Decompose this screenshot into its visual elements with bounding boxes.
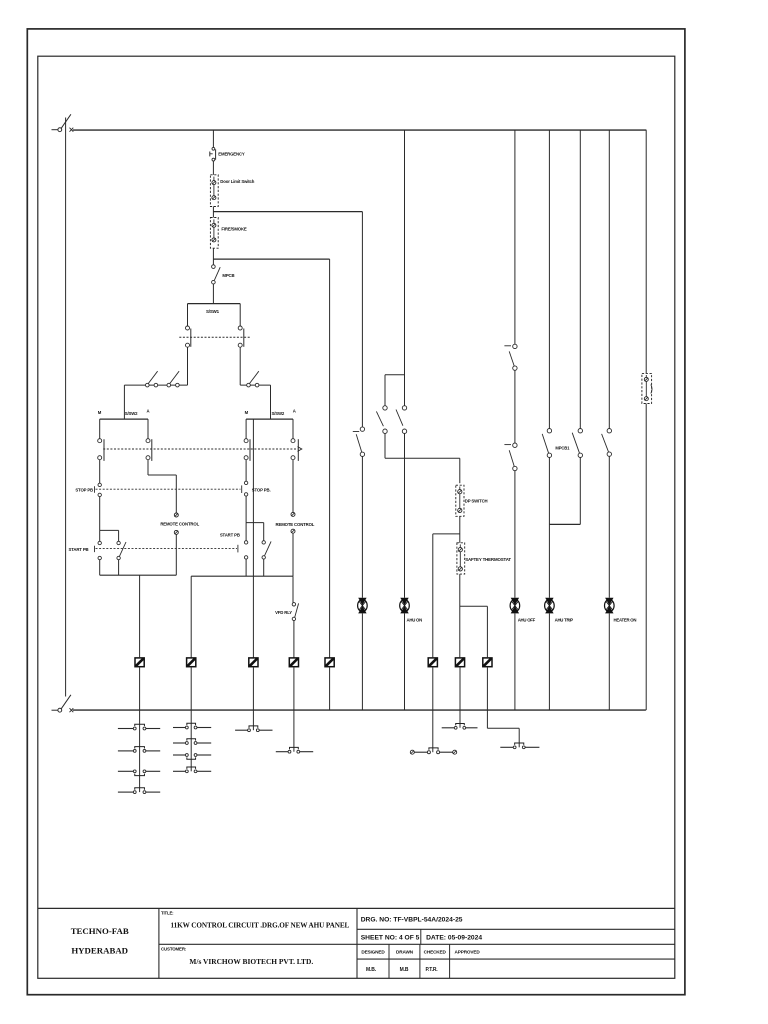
lamp HEATER ON <box>605 598 615 614</box>
wire <box>361 457 363 598</box>
aux contact A3 <box>118 770 160 776</box>
svg-text:AHU ON: AHU ON <box>407 617 423 622</box>
svg-text:FIRE/SMOKE: FIRE/SMOKE <box>221 227 247 232</box>
wire drop to coil K3 <box>252 576 254 658</box>
bottom neutral bus N <box>73 709 646 711</box>
heater contact 610 <box>602 429 612 457</box>
aux contact F1 <box>442 724 478 730</box>
selector switch S/SW1 <box>186 304 244 348</box>
svg-text:TITLE:: TITLE: <box>161 910 174 915</box>
svg-text:APPROVED: APPROVED <box>455 949 481 954</box>
aux contact A1 <box>118 724 160 730</box>
svg-text:CUSTOMER:: CUSTOMER: <box>161 947 187 952</box>
NC contact 515 lower <box>504 443 517 471</box>
svg-text:M/s VIRCHOW BIOTECH PVT. LTD.: M/s VIRCHOW BIOTECH PVT. LTD. <box>189 957 313 966</box>
svg-text:STOP PB.: STOP PB. <box>252 487 271 492</box>
wire M leg down right <box>245 460 247 481</box>
wire column 646 from bus <box>645 130 647 373</box>
wire column 610 from bus <box>608 130 610 428</box>
aux contact A2 <box>118 747 160 753</box>
wire drop to left S/SW2 <box>123 385 125 419</box>
bracket start contacts left <box>100 529 119 531</box>
bracket to DP switch column <box>385 458 460 483</box>
svg-text:M.B: M.B <box>400 967 409 973</box>
inner border frame <box>38 56 675 978</box>
aux contact B4 <box>173 767 211 773</box>
wires contacts to rail left <box>99 560 101 576</box>
contact group D feed wire <box>293 710 295 752</box>
wire <box>212 161 214 175</box>
coil K4 <box>289 658 298 667</box>
wire <box>293 621 295 658</box>
wire drop to coil K2 <box>190 576 192 658</box>
MPCB switch contact <box>212 265 221 284</box>
coil K1 <box>135 658 144 667</box>
selector switch S/SW2 right <box>244 419 298 461</box>
disconnect switch SW-top <box>52 114 71 131</box>
coil K3 <box>249 658 258 667</box>
lamp AHU OFF <box>510 598 520 614</box>
left coil feed rail <box>100 574 177 576</box>
wire left branch horizontal <box>124 384 187 386</box>
svg-text:DP SWITCH: DP SWITCH <box>465 499 488 504</box>
svg-text:MPCB: MPCB <box>222 273 234 278</box>
wire <box>514 370 516 443</box>
lamp AHU TRIP <box>545 598 555 614</box>
wire column 549 from bus <box>548 130 550 428</box>
wire drop to coil K1 <box>139 575 141 658</box>
bracket 385-404 <box>385 375 405 406</box>
wire <box>459 574 461 658</box>
aux contact B2 <box>173 739 211 745</box>
svg-text:S/SW1: S/SW1 <box>206 309 220 314</box>
wire to lamp AHU TRIP <box>548 524 550 597</box>
svg-text:A: A <box>147 409 150 414</box>
wire right branch horizontal <box>240 384 270 386</box>
wire coil K2 to bus <box>190 667 192 710</box>
MPCB1 contact right <box>572 429 582 458</box>
svg-text:S/SW2: S/SW2 <box>125 411 138 416</box>
wire aux drop right S/SW2 <box>252 419 254 576</box>
svg-text:SHEET NO: 4 OF 5: SHEET NO: 4 OF 5 <box>361 934 420 941</box>
wire <box>175 534 177 575</box>
wire drop to right S/SW2 <box>270 385 272 419</box>
wire 385 to DP bracket <box>384 433 386 458</box>
svg-text:EMERGENCY: EMERGENCY <box>218 152 245 157</box>
aux contact B3 <box>173 754 211 760</box>
wire <box>645 404 647 711</box>
stop pushbutton contact right STOP PB <box>244 481 247 496</box>
aux contact column 404 <box>396 406 407 434</box>
top supply bus L1 <box>73 129 647 131</box>
wire <box>548 613 550 710</box>
wire coil K4 to bus <box>293 667 295 710</box>
svg-text:MPCB1: MPCB1 <box>555 446 570 451</box>
remote control terminals left <box>174 513 178 534</box>
wire <box>459 516 461 543</box>
fire/smoke switch box <box>210 218 218 249</box>
dashed actuator STOP PB <box>95 485 242 493</box>
wire column 329 drop <box>329 259 331 658</box>
contact group F feed wire <box>459 710 461 728</box>
dashed actuator line S/SW2 with arrow <box>103 447 302 452</box>
wire column 515 from bus <box>514 130 516 344</box>
wire <box>514 613 516 710</box>
wire coil K3 to bus <box>252 667 254 710</box>
branch to coil K6 <box>433 534 460 658</box>
seal-in contact left <box>117 530 126 559</box>
contact group E feed wire <box>432 710 434 752</box>
wire main column upper <box>212 130 214 147</box>
wire A leg jog left S/SW2 <box>148 460 176 513</box>
svg-text:Door Limit Switch: Door Limit Switch <box>220 179 254 184</box>
wire <box>608 613 610 710</box>
wire <box>212 207 214 218</box>
coil K8 <box>483 658 492 667</box>
svg-text:M.B.: M.B. <box>366 967 377 973</box>
start pushbutton contact left START PB <box>98 530 101 559</box>
wire <box>292 533 294 576</box>
branch wire to coil column 5 <box>213 258 329 260</box>
wire A leg down right <box>292 460 294 513</box>
right coil feed rail <box>191 575 293 577</box>
svg-text:REMOTE CONTROL: REMOTE CONTROL <box>160 521 199 526</box>
emergency pushbutton EMERGENCY <box>210 147 216 161</box>
wire coil K1 to bus <box>139 667 141 710</box>
selector switch S/SW2 left <box>98 419 152 461</box>
wire 404 to lamp <box>404 433 406 597</box>
svg-text:HYDERABAD: HYDERABAD <box>71 945 128 955</box>
coil K5 <box>325 658 334 667</box>
door limit switch box <box>210 175 218 207</box>
terminal block right <box>642 373 652 403</box>
aux contact B1 <box>173 723 211 729</box>
wires MPCB1 join bar <box>549 458 580 525</box>
coil K6 <box>428 658 437 667</box>
svg-text:P.T.R.: P.T.R. <box>425 967 438 973</box>
auto contact 1 left branch <box>146 371 158 387</box>
svg-text:11KW CONTROL CIRCUIT .DRG.OF N: 11KW CONTROL CIRCUIT .DRG.OF NEW AHU PAN… <box>171 921 350 929</box>
wire <box>212 248 214 265</box>
wire coil K8 to bus <box>486 667 488 710</box>
svg-text:AHU TRIP: AHU TRIP <box>555 617 574 622</box>
x mark top <box>70 128 74 132</box>
aux contact E1 with terminals <box>410 748 456 754</box>
aux contact column 385 <box>376 406 387 434</box>
contact group C feed wire <box>252 710 254 730</box>
dashed actuator line S/SW1 <box>179 336 250 338</box>
lamp AHU ON <box>400 598 410 614</box>
svg-text:TECHNO-FAB: TECHNO-FAB <box>71 926 129 936</box>
svg-text:DRG. NO: TF-VBPL-54A/2024-25: DRG. NO: TF-VBPL-54A/2024-25 <box>361 916 463 923</box>
auto contact 2 left branch <box>167 371 179 387</box>
svg-text:DESIGNED: DESIGNED <box>361 949 385 954</box>
svg-text:VFD RLY: VFD RLY <box>275 610 292 615</box>
svg-text:M: M <box>98 410 102 415</box>
svg-text:DRAWN: DRAWN <box>396 949 414 954</box>
wire <box>212 284 214 304</box>
disconnect switch SW-bottom <box>52 695 71 712</box>
wire column 580 from bus <box>579 130 581 428</box>
contact group B feed wire <box>190 710 192 771</box>
NC contact column 362 <box>353 427 365 457</box>
svg-text:HEATER ON: HEATER ON <box>614 617 637 622</box>
seal-in contact right <box>262 523 271 560</box>
wire column 362 drop <box>361 212 363 427</box>
wire column 404 from bus <box>404 130 406 406</box>
wire coil K5 to bus <box>329 667 331 710</box>
stop pushbutton contact left STOP PB <box>98 483 101 496</box>
wire VFD feed <box>292 576 294 602</box>
svg-text:A: A <box>293 409 296 414</box>
contact group A feed wire <box>139 710 141 792</box>
coil K7 <box>455 658 464 667</box>
branch wire to lamp column 1 <box>213 211 362 213</box>
wire S/SW1 left leg down <box>187 347 189 385</box>
wire <box>99 497 101 531</box>
svg-text:DATE: 05-09-2024: DATE: 05-09-2024 <box>426 934 482 941</box>
aux contact C1 <box>235 726 272 732</box>
wire <box>608 456 610 598</box>
auto contact right branch <box>247 371 259 387</box>
wire <box>361 613 363 710</box>
bracket start contacts right <box>246 522 264 524</box>
safety thermostat box <box>457 543 465 574</box>
aux contact G1 <box>500 743 539 749</box>
wire coil K6 to bus <box>432 667 434 710</box>
dashed actuator START PB <box>95 545 238 553</box>
wire S/SW1 right leg down <box>239 347 241 385</box>
start pushbutton contact right START PB <box>244 523 247 560</box>
VFD relay contact VFD RLY <box>292 603 298 621</box>
wires contacts to rail right <box>245 559 247 576</box>
svg-text:S/SW2: S/SW2 <box>272 411 285 416</box>
wire <box>514 471 516 598</box>
svg-text:STOP PB: STOP PB <box>75 487 93 492</box>
wire <box>245 496 247 522</box>
wire coil K7 to bus <box>459 667 461 710</box>
x mark bottom <box>70 708 74 712</box>
svg-text:SAFTEY THERMOSTAT: SAFTEY THERMOSTAT <box>465 557 511 562</box>
svg-text:CHECKED: CHECKED <box>424 949 447 954</box>
lamp L1 <box>358 598 368 614</box>
NC contact 515 upper <box>504 344 517 370</box>
title block frame <box>38 908 675 978</box>
left rail wire <box>65 118 67 697</box>
aux contact D1 <box>276 747 313 753</box>
svg-text:START PB: START PB <box>69 547 89 552</box>
contact group G feed wire L-shape <box>487 710 519 747</box>
MPCB1 contact left <box>542 429 551 458</box>
svg-text:START PB: START PB <box>220 533 240 538</box>
branch to coil K8 <box>460 606 488 658</box>
coil K2 <box>187 658 196 667</box>
aux contact A4 <box>118 788 160 794</box>
svg-text:REMOTE CONTROL: REMOTE CONTROL <box>276 522 315 527</box>
DP switch box <box>456 485 464 516</box>
wire M leg down left <box>99 460 101 483</box>
wire <box>404 613 406 710</box>
remote control terminals right <box>291 512 295 533</box>
svg-text:AHU OFF: AHU OFF <box>518 617 536 622</box>
svg-text:M: M <box>245 410 249 415</box>
